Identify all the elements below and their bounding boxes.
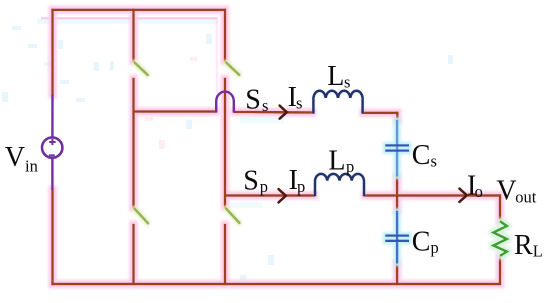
wire: right leg upper segment [224, 9, 226, 62]
svg-text:s: s [431, 151, 437, 170]
svg-text:p: p [346, 157, 354, 176]
wire: Vin lower lead (purple) [51, 158, 53, 190]
wire hop: Ss line jumps over right leg [216, 92, 234, 113]
wire: RL bottom lead to bottom bus [499, 256, 501, 286]
resistor RL zigzag [493, 221, 507, 256]
wire: left leg upper segment [132, 9, 134, 62]
arrow Io [459, 189, 466, 202]
arrow Is [280, 106, 287, 119]
wire: Vin upper lead (purple) [51, 95, 53, 138]
svg-text:p: p [260, 177, 268, 196]
svg-text:C: C [412, 140, 431, 171]
wire: Ss branch from left leg to hop [134, 110, 217, 112]
pink ghost vertical along right leg [216, 18, 218, 108]
pink ghost line under top wire [41, 17, 218, 19]
svg-text:S: S [245, 84, 261, 115]
svg-text:S: S [243, 166, 259, 197]
svg-text:s: s [262, 96, 268, 115]
svg-text:p: p [297, 177, 305, 196]
wire: Cs bottom lead red part down to junction [396, 176, 398, 197]
switch blade: left leg upper [135, 63, 148, 75]
svg-text:out: out [515, 187, 537, 206]
faint cyan strips under branch wires [240, 118, 284, 124]
wire: bottom bus [51, 283, 500, 285]
capacitor Cp lead (vertical) [396, 211, 398, 264]
wire: right leg middle segment [224, 78, 226, 208]
svg-text:L: L [327, 61, 344, 92]
wire: Cp top lead red part below junction [396, 194, 398, 211]
inductor Lp [315, 174, 364, 196]
capacitor Cs plates [385, 145, 409, 150]
svg-text:s: s [296, 94, 302, 113]
wire: Cs corner horizontal piece [396, 112, 398, 114]
inductor Ls [313, 91, 362, 114]
wire: left vertical upper (Vin top lead, red part) [51, 9, 53, 96]
svg-text:p: p [431, 238, 439, 257]
switch blade: left leg lower [135, 209, 148, 223]
wire: Sp branch from right leg to Lp [225, 194, 315, 196]
Vin minus sign [49, 154, 55, 156]
svg-text:V: V [496, 175, 516, 206]
cyan ghost band under top wire [37, 19, 218, 24]
svg-text:L: L [533, 241, 543, 260]
bright ghost crossing dot [51, 17, 54, 20]
capacitor Cs lead (vertical) [396, 120, 398, 177]
svg-text:s: s [344, 73, 350, 92]
svg-text:in: in [25, 157, 38, 176]
wire: Cp bottom lead red part to bottom bus [396, 263, 398, 285]
switch blade: right leg upper [226, 63, 239, 75]
voltage source Vin circle [42, 137, 62, 157]
wire: Sp/Io bus from Lp to output corner, down to RL [364, 196, 500, 222]
wire: top bus [51, 9, 226, 11]
wire: left leg middle segment [132, 78, 134, 209]
svg-text:C: C [412, 226, 431, 257]
svg-text:R: R [514, 230, 533, 261]
Vin plus sign [49, 139, 55, 145]
svg-text:V: V [5, 142, 25, 173]
wire: left leg bottom segment [132, 224, 134, 285]
switch blade: right leg lower [226, 209, 239, 223]
arrow Ip [279, 189, 286, 202]
svg-text:o: o [475, 182, 483, 201]
background artifact dashes (faint) [2, 26, 453, 284]
wire: Ls to Cs corner, corner stub down [362, 112, 397, 121]
wire: right leg bottom segment [224, 224, 226, 285]
capacitor Cp plates [385, 236, 409, 241]
svg-text:L: L [328, 145, 345, 176]
wire: left vertical lower (Vin bottom lead, red part) [51, 189, 53, 286]
wire: Ss branch from hop to Ls [234, 111, 314, 114]
